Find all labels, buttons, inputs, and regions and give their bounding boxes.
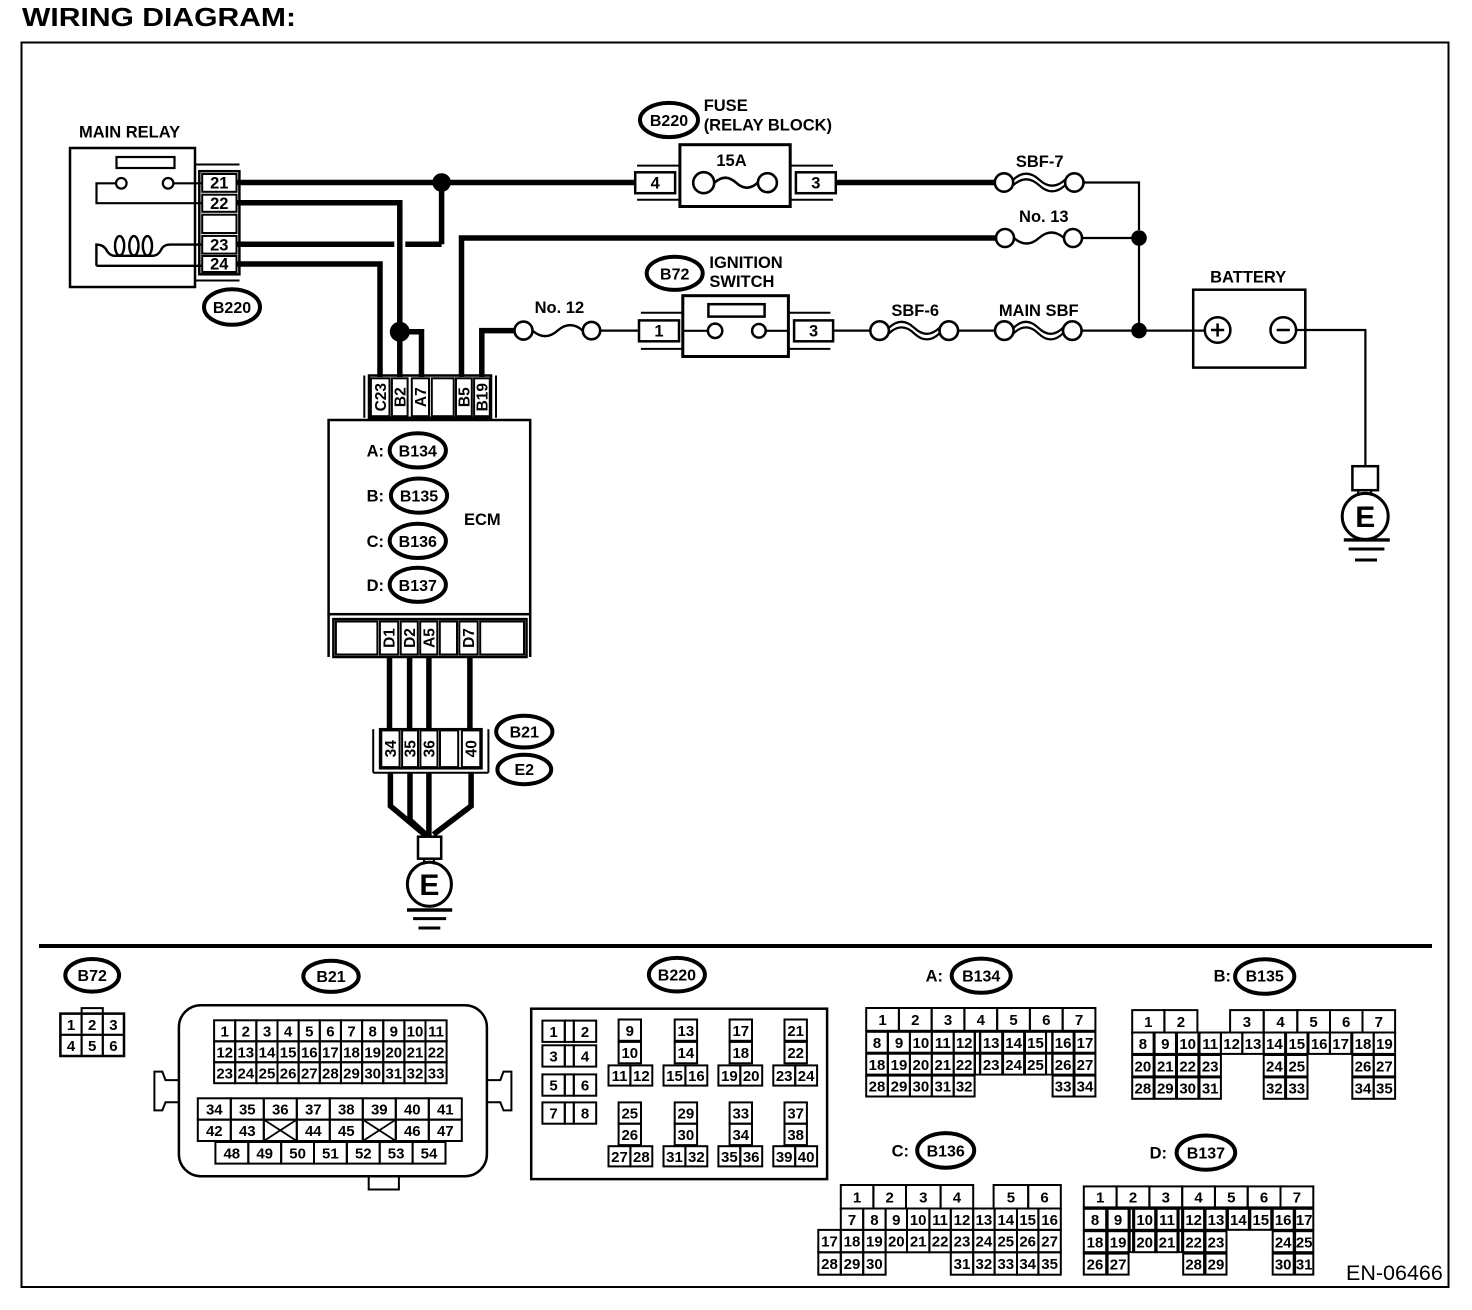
svg-text:20: 20: [743, 1068, 760, 1085]
svg-text:27: 27: [1077, 1057, 1094, 1074]
svg-text:14: 14: [1230, 1212, 1247, 1229]
svg-text:1: 1: [1096, 1190, 1104, 1207]
pin 4 fuse block: [635, 166, 680, 200]
svg-text:25: 25: [997, 1234, 1014, 1251]
svg-text:35: 35: [721, 1149, 738, 1166]
svg-text:14: 14: [997, 1212, 1014, 1229]
svg-text:15: 15: [280, 1044, 297, 1061]
svg-text:7: 7: [848, 1212, 856, 1229]
wire ECM B19 to fuse No.12: [482, 331, 515, 377]
svg-text:8: 8: [581, 1106, 589, 1123]
svg-text:25: 25: [621, 1106, 638, 1123]
svg-text:24: 24: [798, 1068, 815, 1085]
svg-text:A:: A:: [367, 442, 384, 460]
junction dot B: [1131, 230, 1147, 246]
svg-text:17: 17: [1077, 1035, 1094, 1052]
svg-text:20: 20: [913, 1057, 930, 1074]
svg-text:D7: D7: [461, 628, 478, 648]
svg-text:38: 38: [787, 1127, 804, 1144]
svg-text:13: 13: [976, 1212, 993, 1229]
svg-text:21: 21: [210, 175, 228, 193]
junction dot C: [1131, 323, 1147, 339]
svg-text:FUSE: FUSE: [704, 97, 748, 115]
svg-text:7: 7: [1075, 1012, 1083, 1029]
svg-text:4: 4: [1276, 1014, 1285, 1031]
svg-text:29: 29: [1157, 1081, 1174, 1098]
label E2 ellipse: [497, 755, 551, 784]
svg-text:23: 23: [776, 1068, 793, 1085]
svg-text:9: 9: [390, 1023, 398, 1040]
svg-text:12: 12: [633, 1068, 650, 1085]
svg-text:40: 40: [404, 1102, 421, 1119]
svg-text:18: 18: [1355, 1036, 1372, 1053]
svg-text:B220: B220: [650, 113, 688, 130]
pin 3 ignition switch: [788, 313, 833, 349]
svg-text:15A: 15A: [716, 152, 746, 170]
svg-text:26: 26: [1019, 1234, 1036, 1251]
svg-text:25: 25: [259, 1065, 276, 1082]
svg-text:50: 50: [289, 1145, 306, 1162]
title WIRING DIAGRAM: [22, 2, 296, 32]
svg-text:10: 10: [1179, 1036, 1196, 1053]
svg-text:5: 5: [1007, 1189, 1015, 1206]
svg-text:11: 11: [1202, 1036, 1218, 1053]
svg-text:16: 16: [688, 1068, 705, 1085]
svg-text:1: 1: [853, 1189, 861, 1206]
svg-text:10: 10: [621, 1045, 638, 1062]
svg-text:20: 20: [1135, 1058, 1152, 1075]
svg-text:6: 6: [581, 1078, 589, 1095]
svg-text:12: 12: [216, 1044, 233, 1061]
pin 3 fuse block: [790, 166, 836, 200]
svg-text:B21: B21: [316, 969, 345, 986]
svg-text:14: 14: [1005, 1035, 1022, 1052]
svg-text:SWITCH: SWITCH: [709, 273, 774, 291]
svg-text:8: 8: [369, 1023, 377, 1040]
svg-text:(RELAY BLOCK): (RELAY BLOCK): [704, 117, 832, 135]
svg-text:SBF-6: SBF-6: [891, 302, 939, 320]
relay MAIN RELAY: [70, 124, 203, 288]
ground E right: [1342, 466, 1390, 560]
svg-text:34: 34: [206, 1102, 223, 1119]
svg-text:13: 13: [237, 1044, 254, 1061]
svg-text:31: 31: [1296, 1257, 1313, 1274]
label B220 bottom: [649, 958, 705, 992]
svg-text:24: 24: [1266, 1058, 1283, 1075]
svg-text:10: 10: [910, 1212, 927, 1229]
connector B21 grid pins 1-33: [214, 1020, 447, 1083]
svg-text:41: 41: [437, 1102, 454, 1119]
svg-text:30: 30: [866, 1256, 883, 1273]
svg-text:ECM: ECM: [464, 511, 501, 529]
svg-text:D1: D1: [382, 628, 399, 648]
svg-text:29: 29: [844, 1256, 861, 1273]
svg-text:13: 13: [1208, 1212, 1225, 1229]
svg-text:17: 17: [322, 1044, 339, 1061]
svg-text:4: 4: [581, 1049, 590, 1066]
svg-text:11: 11: [428, 1023, 444, 1040]
wire D7 to pin40: [467, 657, 473, 729]
wire pin23 horizontal: [237, 242, 442, 248]
connector B220 pinout: [531, 1009, 827, 1179]
svg-text:38: 38: [338, 1102, 355, 1119]
svg-text:24: 24: [1005, 1057, 1022, 1074]
wire SBF-7 to junction B: [1084, 183, 1140, 231]
svg-text:19: 19: [891, 1057, 908, 1074]
svg-text:35: 35: [403, 740, 420, 758]
wire pin35 to ground: [410, 773, 427, 835]
svg-text:EN-06466: EN-06466: [1346, 1261, 1443, 1285]
svg-text:3: 3: [1243, 1014, 1251, 1031]
fuse MAIN SBF: [995, 302, 1082, 340]
svg-text:26: 26: [621, 1127, 638, 1144]
svg-text:19: 19: [1110, 1234, 1127, 1251]
svg-text:18: 18: [1087, 1234, 1104, 1251]
svg-text:39: 39: [371, 1102, 388, 1119]
label B21 ellipse: [496, 716, 552, 748]
svg-text:39: 39: [776, 1149, 793, 1166]
connector B72 pinout: [60, 1008, 124, 1056]
switch body ignition: [683, 296, 789, 357]
svg-text:34: 34: [383, 740, 400, 758]
svg-text:40: 40: [464, 740, 481, 757]
connector B136 pinout: [818, 1185, 1061, 1275]
svg-text:10: 10: [913, 1035, 930, 1052]
svg-text:28: 28: [1135, 1081, 1152, 1098]
svg-text:16: 16: [1055, 1035, 1072, 1052]
svg-text:34: 34: [1077, 1079, 1094, 1096]
svg-text:22: 22: [1179, 1058, 1196, 1075]
svg-text:No. 12: No. 12: [535, 299, 585, 317]
svg-text:18: 18: [869, 1057, 886, 1074]
svg-text:12: 12: [956, 1035, 973, 1052]
svg-text:32: 32: [407, 1065, 424, 1082]
svg-text:SBF-7: SBF-7: [1016, 153, 1064, 171]
svg-text:34: 34: [732, 1127, 749, 1144]
svg-text:30: 30: [913, 1079, 930, 1096]
battery BATTERY: [1193, 269, 1305, 368]
svg-text:B72: B72: [78, 968, 107, 985]
svg-text:22: 22: [210, 195, 228, 213]
svg-text:15: 15: [1027, 1035, 1044, 1052]
svg-text:15: 15: [1252, 1212, 1269, 1229]
svg-text:35: 35: [1376, 1081, 1393, 1098]
svg-text:21: 21: [910, 1234, 927, 1251]
label B220 fuse block: [640, 103, 698, 137]
svg-text:C:: C:: [892, 1143, 909, 1161]
svg-text:22: 22: [1185, 1234, 1202, 1251]
svg-text:B:: B:: [1214, 968, 1231, 986]
svg-text:28: 28: [869, 1079, 886, 1096]
svg-text:3: 3: [809, 322, 818, 340]
svg-text:47: 47: [437, 1123, 454, 1140]
separator line: [39, 944, 1432, 948]
svg-text:23: 23: [954, 1234, 971, 1251]
svg-text:12: 12: [954, 1212, 971, 1229]
label C: B136: [367, 524, 446, 558]
label IGNITION SWITCH: [709, 254, 782, 291]
svg-text:4: 4: [977, 1012, 986, 1029]
label FUSE (RELAY BLOCK): [704, 97, 832, 135]
svg-text:35: 35: [1041, 1256, 1058, 1273]
svg-text:22: 22: [787, 1045, 804, 1062]
op-amp ECM box: [329, 420, 531, 657]
svg-text:19: 19: [1376, 1036, 1393, 1053]
svg-text:53: 53: [388, 1145, 405, 1162]
wire ECM B5 to fuse No.13: [462, 238, 997, 377]
svg-text:4: 4: [1194, 1190, 1203, 1207]
svg-text:MAIN RELAY: MAIN RELAY: [79, 124, 180, 142]
svg-text:WIRING DIAGRAM:: WIRING DIAGRAM:: [22, 2, 296, 32]
svg-text:14: 14: [678, 1045, 695, 1062]
svg-text:29: 29: [343, 1065, 360, 1082]
svg-text:6: 6: [1042, 1012, 1050, 1029]
svg-text:1: 1: [654, 322, 663, 340]
svg-text:21: 21: [787, 1023, 804, 1040]
svg-text:30: 30: [678, 1127, 695, 1144]
label D: B137 bottom: [1150, 1136, 1236, 1170]
svg-text:6: 6: [326, 1023, 334, 1040]
svg-text:11: 11: [612, 1068, 628, 1085]
svg-text:7: 7: [1375, 1014, 1383, 1031]
svg-text:25: 25: [1296, 1234, 1313, 1251]
svg-text:5: 5: [1009, 1012, 1017, 1029]
connector B21 grid pins 48-54: [215, 1142, 445, 1164]
wire MAIN SBF to battery: [1082, 330, 1205, 332]
svg-text:15: 15: [666, 1068, 683, 1085]
svg-text:8: 8: [873, 1035, 881, 1052]
svg-text:24: 24: [976, 1234, 993, 1251]
svg-text:B134: B134: [399, 443, 437, 460]
wire SBF-6 to MAIN SBF: [958, 330, 995, 332]
svg-text:24: 24: [210, 256, 229, 274]
svg-text:MAIN SBF: MAIN SBF: [999, 302, 1079, 320]
svg-text:19: 19: [866, 1234, 883, 1251]
svg-text:B136: B136: [927, 1144, 965, 1161]
svg-text:4: 4: [284, 1023, 293, 1040]
svg-text:21: 21: [934, 1057, 951, 1074]
svg-text:IGNITION: IGNITION: [709, 254, 782, 272]
connector B134 pinout: [866, 1008, 1095, 1097]
svg-text:28: 28: [322, 1065, 339, 1082]
svg-text:B137: B137: [1187, 1146, 1225, 1163]
svg-text:17: 17: [1332, 1036, 1349, 1053]
svg-text:2: 2: [886, 1189, 894, 1206]
svg-text:30: 30: [1275, 1257, 1292, 1274]
svg-text:26: 26: [1055, 1057, 1072, 1074]
svg-text:9: 9: [892, 1212, 900, 1229]
svg-text:10: 10: [407, 1023, 424, 1040]
svg-text:36: 36: [743, 1149, 760, 1166]
svg-text:16: 16: [1275, 1212, 1292, 1229]
svg-text:32: 32: [1266, 1081, 1283, 1098]
svg-text:23: 23: [216, 1065, 233, 1082]
svg-text:27: 27: [1041, 1234, 1058, 1251]
wire No.13 to junction B: [1082, 237, 1139, 239]
wire D1 to pin34: [387, 657, 393, 729]
svg-text:A5: A5: [421, 628, 438, 648]
svg-text:B135: B135: [400, 489, 438, 506]
svg-text:28: 28: [633, 1149, 650, 1166]
svg-text:20: 20: [385, 1044, 402, 1061]
svg-text:28: 28: [821, 1256, 838, 1273]
svg-text:29: 29: [678, 1106, 695, 1123]
svg-text:7: 7: [1293, 1190, 1301, 1207]
svg-text:16: 16: [1311, 1036, 1328, 1053]
svg-text:B19: B19: [475, 383, 492, 412]
svg-text:17: 17: [1296, 1212, 1313, 1229]
svg-text:B21: B21: [510, 724, 539, 741]
svg-text:2: 2: [1129, 1190, 1137, 1207]
label C: B136 bottom: [892, 1133, 975, 1168]
svg-text:6: 6: [1260, 1190, 1268, 1207]
svg-text:24: 24: [237, 1065, 254, 1082]
label D: B137: [367, 568, 446, 602]
wire pin34 to ground: [390, 773, 424, 835]
svg-text:B220: B220: [213, 300, 251, 317]
svg-text:4: 4: [953, 1189, 962, 1206]
svg-text:23: 23: [210, 236, 228, 254]
svg-text:7: 7: [347, 1023, 355, 1040]
svg-text:34: 34: [1019, 1256, 1036, 1273]
svg-text:E: E: [1355, 501, 1375, 534]
svg-text:12: 12: [1223, 1036, 1240, 1053]
svg-text:11: 11: [935, 1035, 951, 1052]
pin 1 ignition switch: [639, 313, 683, 349]
svg-text:45: 45: [338, 1123, 355, 1140]
svg-text:B136: B136: [399, 534, 437, 551]
svg-text:19: 19: [364, 1044, 381, 1061]
svg-text:32: 32: [976, 1256, 993, 1273]
wire A5 to pin36: [426, 657, 432, 729]
svg-text:3: 3: [1162, 1190, 1170, 1207]
connector B220 relay pins 21-24: [196, 165, 240, 281]
svg-text:8: 8: [1091, 1212, 1099, 1229]
wire D2 to pin35: [407, 657, 413, 729]
svg-text:30: 30: [1179, 1081, 1196, 1098]
svg-text:37: 37: [305, 1102, 322, 1119]
svg-text:26: 26: [1355, 1058, 1372, 1075]
svg-text:51: 51: [322, 1145, 339, 1162]
svg-text:28: 28: [1185, 1257, 1202, 1274]
svg-text:29: 29: [891, 1079, 908, 1096]
svg-text:5: 5: [1227, 1190, 1235, 1207]
svg-text:8: 8: [870, 1212, 878, 1229]
connector B21-E2 pins 34 35 36 40: [373, 729, 488, 773]
svg-text:20: 20: [1136, 1234, 1153, 1251]
ground E left: [407, 837, 452, 928]
svg-text:29: 29: [1208, 1257, 1225, 1274]
svg-text:25: 25: [1288, 1058, 1305, 1075]
svg-text:33: 33: [1055, 1079, 1072, 1096]
svg-text:8: 8: [1139, 1036, 1147, 1053]
connector B21 grid pins 34-47: [198, 1098, 462, 1141]
svg-text:9: 9: [1114, 1212, 1122, 1229]
svg-text:9: 9: [895, 1035, 903, 1052]
svg-text:BATTERY: BATTERY: [1210, 269, 1286, 287]
svg-text:11: 11: [932, 1212, 948, 1229]
svg-text:B220: B220: [658, 967, 696, 984]
svg-text:32: 32: [956, 1079, 973, 1096]
wire junction B to junction C: [1138, 238, 1140, 331]
label B: B135 bottom: [1214, 959, 1295, 994]
svg-text:33: 33: [732, 1106, 749, 1123]
svg-text:31: 31: [934, 1079, 951, 1096]
svg-text:13: 13: [678, 1023, 695, 1040]
svg-text:D2: D2: [402, 628, 419, 648]
svg-text:15: 15: [1288, 1036, 1305, 1053]
svg-text:13: 13: [1245, 1036, 1262, 1053]
svg-text:A:: A:: [926, 968, 943, 986]
svg-text:18: 18: [343, 1044, 360, 1061]
svg-text:1: 1: [1144, 1014, 1152, 1031]
svg-text:33: 33: [428, 1065, 445, 1082]
svg-text:43: 43: [239, 1123, 256, 1140]
svg-text:48: 48: [223, 1145, 240, 1162]
fuse No. 12: [515, 299, 601, 339]
svg-text:5: 5: [305, 1023, 313, 1040]
svg-text:4: 4: [67, 1038, 76, 1055]
svg-text:6: 6: [109, 1038, 117, 1055]
svg-text:A7: A7: [413, 387, 430, 407]
label B220 relay connector: [204, 289, 260, 325]
svg-text:2: 2: [88, 1017, 96, 1034]
svg-text:19: 19: [721, 1068, 738, 1085]
svg-text:B5: B5: [456, 387, 473, 407]
label B: B135: [367, 479, 448, 513]
svg-text:11: 11: [1159, 1212, 1175, 1229]
connector ECM bottom pins D1 D2 A5 D7: [333, 619, 526, 657]
svg-text:52: 52: [355, 1145, 372, 1162]
svg-text:13: 13: [983, 1035, 1000, 1052]
svg-text:34: 34: [1355, 1081, 1372, 1098]
svg-text:23: 23: [1208, 1234, 1225, 1251]
svg-text:16: 16: [301, 1044, 318, 1061]
svg-text:D:: D:: [367, 577, 384, 595]
svg-text:E: E: [419, 869, 439, 902]
svg-text:22: 22: [428, 1044, 445, 1061]
svg-text:3: 3: [944, 1012, 952, 1029]
svg-text:46: 46: [404, 1123, 421, 1140]
svg-text:21: 21: [1159, 1234, 1176, 1251]
svg-text:1: 1: [67, 1017, 75, 1034]
svg-text:27: 27: [1376, 1058, 1393, 1075]
svg-text:C:: C:: [367, 533, 384, 551]
svg-text:33: 33: [1288, 1081, 1305, 1098]
svg-text:54: 54: [421, 1145, 438, 1162]
svg-text:C23: C23: [373, 383, 390, 412]
svg-text:4: 4: [651, 174, 661, 192]
wire pin22 to ECM B2 and A7: [237, 203, 422, 377]
fuse SBF-7: [995, 153, 1084, 192]
svg-text:27: 27: [1110, 1257, 1127, 1274]
label B21 bottom: [303, 961, 358, 992]
wire No.12 to ignition pin1: [600, 330, 639, 332]
svg-text:5: 5: [549, 1078, 557, 1095]
svg-text:5: 5: [88, 1038, 96, 1055]
svg-text:25: 25: [1027, 1057, 1044, 1074]
svg-text:No. 13: No. 13: [1019, 208, 1069, 226]
svg-text:3: 3: [811, 174, 820, 192]
svg-text:E2: E2: [515, 762, 535, 779]
svg-text:17: 17: [821, 1234, 838, 1251]
wire fuse pin3 to SBF-7: [836, 180, 995, 186]
wire pin24 to ECM C23: [237, 264, 380, 377]
svg-text:2: 2: [581, 1024, 589, 1041]
svg-text:14: 14: [259, 1044, 276, 1061]
wire ignition pin3 to SBF-6: [833, 330, 870, 332]
svg-text:B2: B2: [392, 387, 409, 407]
